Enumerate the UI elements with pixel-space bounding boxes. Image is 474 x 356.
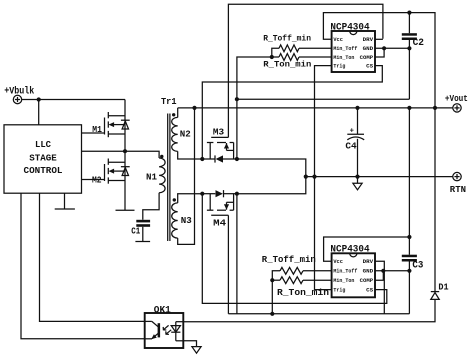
svg-text:NCP4304: NCP4304 bbox=[330, 245, 369, 256]
svg-text:GND: GND bbox=[363, 269, 374, 275]
svg-text:Min_Toff: Min_Toff bbox=[333, 269, 357, 275]
svg-text:C4: C4 bbox=[345, 140, 357, 151]
svg-text:RTN: RTN bbox=[450, 184, 466, 195]
svg-text:Vcc: Vcc bbox=[333, 259, 343, 265]
svg-text:Tr1: Tr1 bbox=[161, 96, 177, 107]
svg-text:Min_Ton: Min_Ton bbox=[333, 55, 354, 61]
svg-text:Trig: Trig bbox=[333, 64, 345, 70]
svg-text:STAGE: STAGE bbox=[29, 153, 57, 164]
svg-text:LLC: LLC bbox=[35, 139, 51, 150]
svg-text:N3: N3 bbox=[181, 215, 192, 226]
svg-text:COMP: COMP bbox=[360, 55, 374, 61]
svg-text:C1: C1 bbox=[131, 226, 140, 237]
svg-text:DRV: DRV bbox=[363, 259, 374, 265]
svg-text:DRV: DRV bbox=[363, 37, 374, 43]
svg-text:M4: M4 bbox=[213, 218, 226, 229]
svg-text:R_Toff_min: R_Toff_min bbox=[263, 34, 311, 44]
svg-text:R_Ton_min: R_Ton_min bbox=[277, 288, 329, 298]
svg-text:M2: M2 bbox=[92, 175, 102, 186]
svg-text:+Vout: +Vout bbox=[445, 93, 468, 104]
svg-text:OK1: OK1 bbox=[154, 304, 171, 315]
svg-text:+Vbulk: +Vbulk bbox=[4, 86, 34, 98]
svg-text:Min_Toff: Min_Toff bbox=[333, 46, 357, 52]
svg-text:N1: N1 bbox=[146, 171, 157, 182]
svg-text:Trig: Trig bbox=[333, 288, 345, 294]
svg-text:R_Ton_min: R_Ton_min bbox=[263, 60, 311, 70]
svg-text:NCP4304: NCP4304 bbox=[330, 22, 369, 33]
svg-text:CS: CS bbox=[366, 288, 374, 294]
svg-text:+: + bbox=[350, 127, 354, 135]
svg-text:C2: C2 bbox=[413, 37, 425, 48]
svg-text:CS: CS bbox=[366, 64, 374, 70]
svg-text:COMP: COMP bbox=[360, 278, 374, 284]
svg-text:GND: GND bbox=[363, 46, 374, 52]
svg-text:M1: M1 bbox=[92, 124, 102, 135]
svg-text:R_Toff_min: R_Toff_min bbox=[262, 255, 316, 265]
svg-text:C3: C3 bbox=[412, 259, 423, 270]
svg-text:N2: N2 bbox=[180, 129, 191, 140]
svg-text:CONTROL: CONTROL bbox=[24, 165, 63, 176]
svg-text:Min_Ton: Min_Ton bbox=[333, 278, 354, 284]
svg-text:M3: M3 bbox=[213, 127, 225, 138]
svg-text:Vcc: Vcc bbox=[333, 37, 343, 43]
svg-text:D1: D1 bbox=[438, 281, 449, 292]
